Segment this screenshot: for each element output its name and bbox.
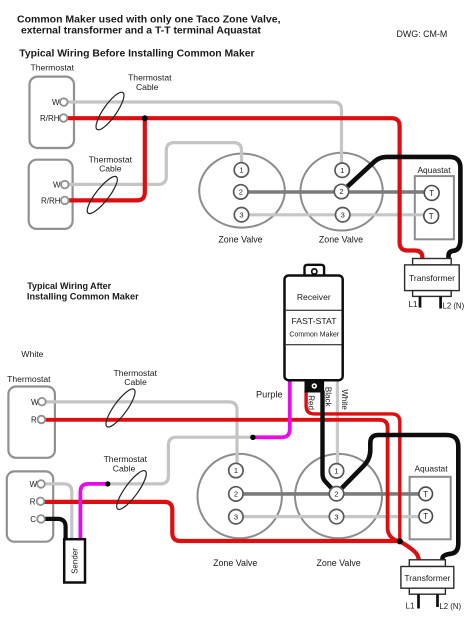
svg-text:2: 2 bbox=[234, 490, 238, 499]
terminal C (thermostat TSTAT4) bbox=[37, 515, 45, 523]
svg-text:3: 3 bbox=[341, 210, 345, 219]
svg-text:Aquastat: Aquastat bbox=[417, 165, 451, 175]
receiver / common maker box bbox=[285, 265, 343, 393]
svg-text:1: 1 bbox=[334, 467, 338, 476]
svg-text:R/RH: R/RH bbox=[40, 114, 60, 123]
svg-text:Black: Black bbox=[323, 387, 332, 408]
sender box bbox=[64, 539, 85, 582]
svg-text:Zone Valve: Zone Valve bbox=[213, 558, 257, 568]
svg-text:Typical Wiring After: Typical Wiring After bbox=[27, 281, 111, 291]
svg-text:Cable: Cable bbox=[99, 163, 122, 173]
wire: W thermostat1 to zone valve 2 terminal 1 (white/gray) bbox=[68, 102, 342, 163]
junction dot 2 (gray/purple, middle) bbox=[250, 435, 255, 440]
svg-text:L1: L1 bbox=[409, 300, 418, 309]
terminal W (thermostat TSTAT4) bbox=[37, 480, 45, 488]
svg-text:Transformer: Transformer bbox=[404, 573, 450, 583]
svg-text:Zone Valve: Zone Valve bbox=[319, 235, 363, 245]
svg-text:T: T bbox=[429, 189, 434, 198]
svg-text:Cable: Cable bbox=[136, 82, 159, 92]
svg-text:Zone Valve: Zone Valve bbox=[316, 558, 360, 568]
wire: valve terminal3 bus to aquastat T (light gray, bottom) bbox=[242, 515, 420, 518]
svg-text:2: 2 bbox=[339, 187, 343, 196]
zone valve 1 body bbox=[199, 154, 285, 228]
wire: zone valve terminal 2 bus to aquastat T (dark gray) bbox=[248, 190, 424, 194]
aquastat terminal T (upper) bbox=[424, 186, 439, 201]
svg-text:DWG: CM-M: DWG: CM-M bbox=[397, 29, 448, 39]
svg-text:2: 2 bbox=[334, 489, 338, 498]
zone valve ZV2 terminal 3 bbox=[336, 208, 350, 222]
wire: dot2 to receiver purple pin (magenta) bbox=[253, 381, 290, 438]
aquastat 2 terminal T (upper) bbox=[419, 487, 433, 501]
svg-text:external transformer and a T-T: external transformer and a T-T terminal … bbox=[21, 26, 261, 37]
zone valve 1 body (bottom) bbox=[198, 454, 282, 538]
junction dot 3 (red, bottom right) bbox=[397, 538, 403, 544]
terminal R (thermostat TSTAT4) bbox=[37, 498, 45, 506]
svg-text:W: W bbox=[29, 480, 37, 489]
wire: valve terminal2 bus to aquastat T (dark gray, bottom) bbox=[242, 492, 420, 496]
svg-text:T: T bbox=[429, 212, 434, 221]
svg-text:1: 1 bbox=[340, 166, 344, 175]
svg-text:R: R bbox=[30, 497, 36, 506]
wire: R thermostat bottom1 to junction (red) bbox=[45, 420, 400, 542]
svg-text:T: T bbox=[423, 512, 428, 521]
aquastat box bbox=[415, 176, 454, 239]
svg-text:L2 (N): L2 (N) bbox=[439, 602, 461, 611]
svg-text:R: R bbox=[31, 416, 37, 425]
zone valve ZV4 terminal 1 bbox=[329, 464, 343, 478]
svg-text:Receiver: Receiver bbox=[297, 292, 331, 302]
thermostat T2 box bbox=[29, 160, 73, 229]
svg-text:Purple: Purple bbox=[256, 390, 283, 400]
transformer (bottom) bbox=[401, 560, 462, 611]
zone valve ZV2 terminal 2 bbox=[334, 184, 348, 198]
wire: receiver black pin down to valve2 terminal2 (black) bbox=[323, 391, 337, 494]
zone valve ZV3 terminal 1 bbox=[229, 463, 243, 477]
terminal W (thermostat TSTAT1) bbox=[60, 98, 68, 106]
wire: C thermostat bottom2 to sender (black) bbox=[45, 519, 66, 541]
junction dot 1 (purple/gray, bottom left) bbox=[105, 481, 110, 486]
wire: red branch to thermostat2 R/RH bbox=[69, 118, 145, 200]
wire: receiver red pin to junction (red) bbox=[306, 391, 400, 542]
svg-text:R/RH: R/RH bbox=[41, 196, 61, 205]
wire: zone valve terminal 3 bus to aquastat T (light gray) bbox=[249, 213, 425, 216]
svg-text:Aquastat: Aquastat bbox=[414, 463, 448, 473]
svg-text:L1: L1 bbox=[406, 602, 415, 611]
svg-text:Common Maker: Common Maker bbox=[289, 331, 339, 338]
zone valve ZV1 terminal 2 bbox=[234, 185, 248, 199]
aquastat terminal T (lower) bbox=[424, 209, 439, 224]
svg-text:White: White bbox=[340, 389, 349, 410]
svg-text:2: 2 bbox=[239, 188, 243, 197]
wire: R thermostat bottom2 to junction (red) bbox=[45, 502, 400, 541]
svg-text:L2 (N): L2 (N) bbox=[443, 301, 465, 310]
thermostat T1 box bbox=[30, 77, 75, 148]
wire: purple sender to dot1 (magenta) bbox=[80, 484, 107, 541]
zone valve 2 body (bottom) bbox=[295, 454, 382, 538]
wire: junction to transformer (red) bbox=[400, 541, 419, 561]
terminal R/RH (thermostat TSTAT1) bbox=[60, 114, 68, 122]
svg-text:Thermostat: Thermostat bbox=[7, 374, 51, 384]
terminal W (thermostat TSTAT3) bbox=[38, 398, 46, 406]
cable ellipse 2 bbox=[83, 173, 122, 217]
svg-text:Common Maker used with only on: Common Maker used with only one Taco Zon… bbox=[17, 14, 281, 26]
svg-text:Cable: Cable bbox=[124, 377, 147, 387]
terminal W (thermostat TSTAT2) bbox=[61, 181, 69, 189]
wire: receiver white to valve2 terminal1 bbox=[336, 381, 339, 464]
svg-text:Installing Common Maker: Installing Common Maker bbox=[27, 292, 139, 302]
svg-text:Red: Red bbox=[307, 395, 316, 410]
svg-text:Cable: Cable bbox=[113, 463, 136, 473]
svg-text:3: 3 bbox=[334, 512, 338, 521]
zone valve ZV3 terminal 3 bbox=[229, 510, 243, 524]
zone valve 2 body bbox=[300, 153, 382, 231]
wire: zone valve 2 terminal 2 to transformer (black) bbox=[348, 157, 461, 260]
zone valve ZV1 terminal 3 bbox=[234, 208, 248, 222]
wire: W thermostat bottom1 to valve1 terminal1 (white/gray) bbox=[46, 402, 238, 464]
wire: valve2 terminal2 to transformer (black, bottom) bbox=[337, 435, 459, 561]
zone valve ZV2 terminal 1 bbox=[335, 163, 349, 177]
wire: W thermostat2 to zone valve 1 terminal 1 (white/gray) bbox=[69, 143, 242, 185]
zone valve ZV1 terminal 1 bbox=[234, 163, 248, 177]
svg-text:3: 3 bbox=[234, 512, 238, 521]
cable ellipse 4 bbox=[112, 467, 150, 513]
svg-text:Thermostat: Thermostat bbox=[31, 63, 75, 73]
cable ellipse 3 bbox=[102, 386, 140, 431]
aquastat box bottom bbox=[410, 477, 451, 540]
svg-text:Sender: Sender bbox=[71, 548, 80, 574]
svg-text:Thermostat: Thermostat bbox=[128, 73, 172, 83]
junction dot (red bus, top) bbox=[142, 115, 148, 121]
svg-text:T: T bbox=[423, 490, 428, 499]
svg-text:W: W bbox=[52, 98, 60, 107]
thermostat box bottom2 bbox=[7, 471, 53, 541]
transformer (top) bbox=[405, 259, 465, 311]
wire: R/RH thermostat1 to transformer (red) bbox=[68, 118, 423, 259]
svg-text:Typical Wiring Before Installi: Typical Wiring Before Installing Common … bbox=[19, 49, 254, 60]
svg-text:White: White bbox=[21, 349, 43, 359]
svg-text:W: W bbox=[53, 180, 61, 189]
cable ellipse 1 bbox=[92, 89, 128, 133]
svg-text:1: 1 bbox=[239, 166, 243, 175]
svg-text:FAST-STAT: FAST-STAT bbox=[291, 316, 337, 326]
zone valve ZV4 terminal 2 bbox=[329, 487, 343, 501]
svg-text:Transformer: Transformer bbox=[409, 273, 455, 283]
svg-text:3: 3 bbox=[239, 210, 243, 219]
aquastat 2 terminal T (lower) bbox=[419, 509, 433, 523]
zone valve ZV4 terminal 3 bbox=[329, 509, 343, 523]
wire: gray link dot1 to dot2 bbox=[108, 437, 253, 484]
thermostat box bottom1 bbox=[8, 387, 55, 458]
svg-text:1: 1 bbox=[234, 466, 238, 475]
svg-text:Zone Valve: Zone Valve bbox=[218, 235, 262, 245]
wire: W thermostat bottom2 down to sender (white/gray) bbox=[45, 484, 72, 541]
terminal R (thermostat TSTAT3) bbox=[38, 416, 46, 424]
terminal R/RH (thermostat TSTAT2) bbox=[61, 197, 69, 205]
svg-text:C: C bbox=[30, 515, 36, 524]
zone valve ZV3 terminal 2 bbox=[229, 487, 243, 501]
